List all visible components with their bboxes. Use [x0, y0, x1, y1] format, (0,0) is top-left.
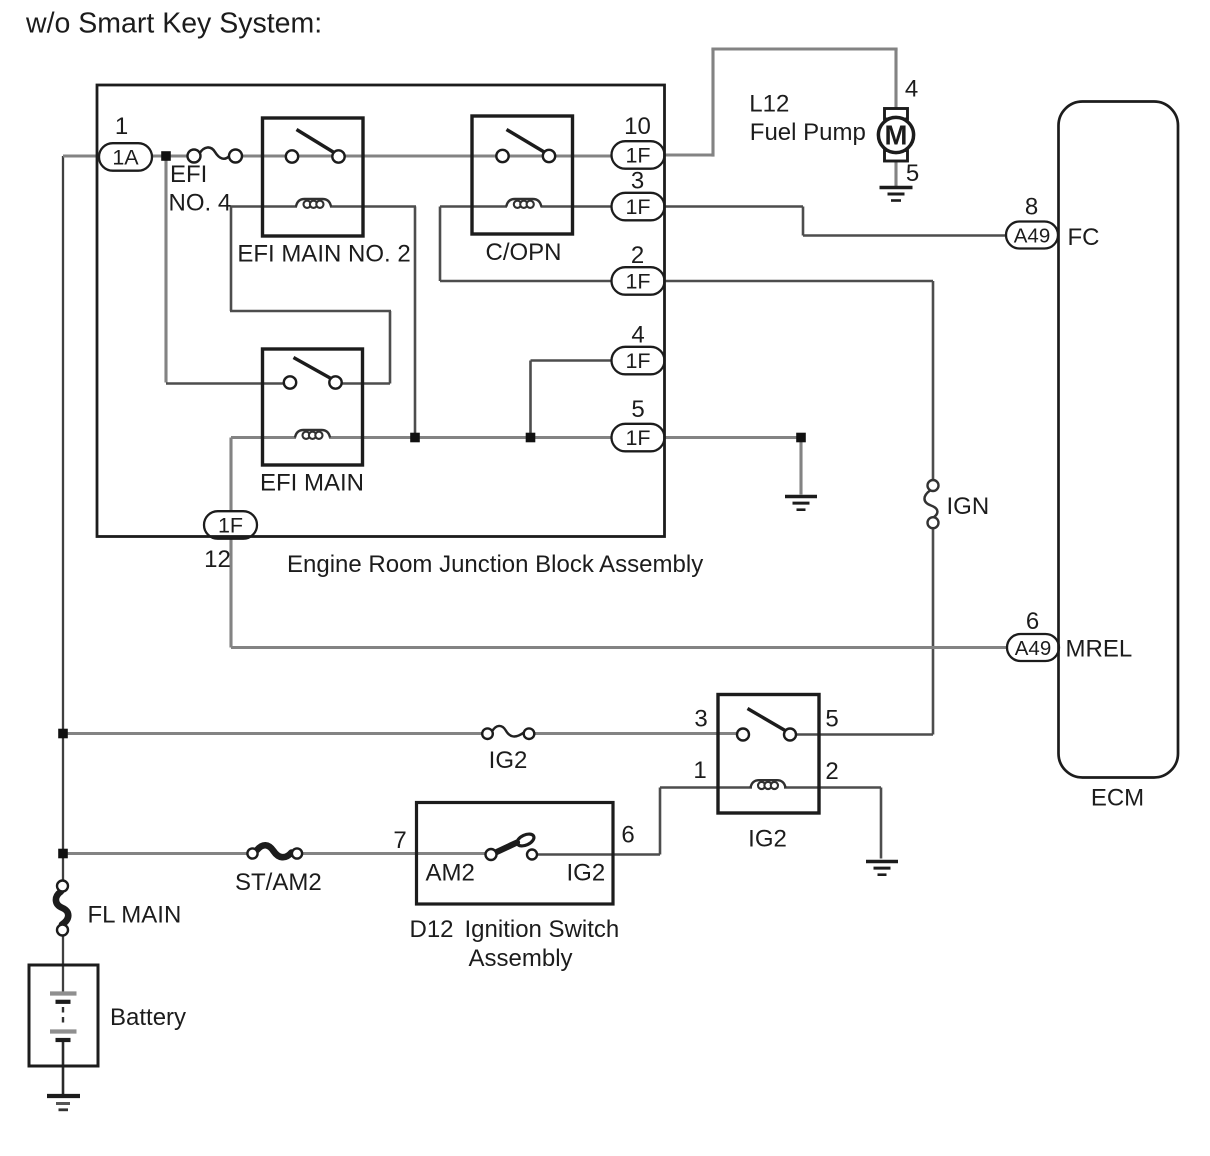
- fusible link ST/AM2: [247, 845, 302, 858]
- svg-text:6: 6: [1026, 608, 1039, 635]
- svg-text:ST/AM2: ST/AM2: [235, 869, 322, 896]
- svg-text:2: 2: [825, 758, 838, 785]
- svg-text:M: M: [885, 120, 908, 151]
- label fusible link FL MAIN: [88, 902, 182, 929]
- svg-text:4: 4: [631, 322, 644, 349]
- relay box C/OPN: [472, 116, 573, 234]
- svg-text:1: 1: [693, 757, 706, 784]
- svg-text:Assembly: Assembly: [469, 945, 573, 972]
- ground pin 5: [785, 497, 817, 510]
- label fusible link ST/AM2: [235, 869, 322, 896]
- svg-text:IG2: IG2: [489, 747, 528, 774]
- battery plate short negative: [56, 1000, 71, 1004]
- wire ignition switch to IG2 relay coil: [537, 788, 752, 855]
- label D12 Ignition Switch Assembly: [410, 916, 620, 972]
- coil C/OPN: [506, 199, 541, 208]
- fusible link FL MAIN: [56, 881, 68, 936]
- label MREL: [1066, 636, 1133, 663]
- svg-text:3: 3: [631, 168, 644, 195]
- wire main top line 1A to fuse: [151, 154, 189, 157]
- svg-text:6: 6: [621, 822, 634, 849]
- junction dot IG2 fuse tap: [58, 729, 68, 739]
- wire battery main feed vertical: [62, 156, 64, 994]
- coil IG2 relay: [751, 780, 786, 789]
- svg-text:Engine Room Junction Block Ass: Engine Room Junction Block Assembly: [287, 551, 703, 578]
- wire pin 10 to fuel pump: [664, 49, 898, 157]
- label L12 Fuel Pump: [749, 91, 866, 147]
- svg-text:Ignition Switch: Ignition Switch: [465, 916, 620, 943]
- label Battery: [110, 1004, 186, 1031]
- svg-text:FC: FC: [1068, 224, 1100, 251]
- connector A49 pin 8 FC: [1006, 222, 1058, 249]
- relay box EFI MAIN NO. 2: [263, 118, 364, 236]
- svg-text:10: 10: [624, 113, 651, 140]
- junction dot NO. 2 coil / EFI MAIN coil: [410, 433, 420, 443]
- junction dot pin 5 / ground: [796, 433, 806, 443]
- svg-text:MREL: MREL: [1066, 636, 1133, 663]
- label pin 10: [624, 113, 651, 140]
- svg-text:A49: A49: [1015, 637, 1051, 660]
- label pin 4: [631, 322, 644, 349]
- wire ST/AM2 feed: [63, 852, 486, 855]
- junction dot ST/AM2 tap: [58, 849, 68, 859]
- svg-text:8: 8: [1025, 194, 1038, 221]
- wire pin 12 riser: [229, 438, 232, 513]
- fuel pump motor M: [878, 109, 913, 162]
- relay box EFI MAIN: [263, 349, 363, 465]
- label pin 8: [1025, 194, 1038, 221]
- contact blade EFI MAIN NO. 2: [286, 130, 345, 163]
- connector A49 pin 6 MREL: [1007, 634, 1059, 661]
- ECM box: [1059, 102, 1179, 778]
- wire pin 2 to IGN fuse: [664, 281, 933, 481]
- svg-text:1: 1: [115, 113, 128, 140]
- connector 1F pin 2: [612, 267, 665, 295]
- label FC: [1068, 224, 1100, 251]
- svg-text:EFI: EFI: [170, 161, 207, 188]
- svg-text:5: 5: [825, 706, 838, 733]
- label junction block: [287, 551, 703, 578]
- svg-text:12: 12: [204, 546, 231, 573]
- svg-text:Battery: Battery: [110, 1004, 186, 1031]
- svg-text:7: 7: [393, 827, 406, 854]
- label ECM: [1091, 785, 1144, 812]
- svg-text:NO. 4: NO. 4: [169, 190, 232, 217]
- coil EFI MAIN NO. 2: [296, 199, 331, 208]
- label fuse EFI NO. 4: [169, 161, 232, 217]
- wire C/OPN coil line: [440, 205, 612, 208]
- svg-text:EFI MAIN: EFI MAIN: [260, 470, 364, 497]
- label pin 12: [204, 546, 231, 573]
- contact blade IG2 relay: [737, 709, 796, 741]
- battery plate long positive: [50, 991, 77, 995]
- connector 1F pin 10: [612, 141, 665, 169]
- svg-text:EFI MAIN NO. 2: EFI MAIN NO. 2: [237, 241, 410, 268]
- fuse EFI NO. 4: [188, 147, 243, 162]
- connector 1F pin 4: [612, 347, 665, 375]
- svg-text:ECM: ECM: [1091, 785, 1144, 812]
- svg-text:IG2: IG2: [567, 860, 606, 887]
- junction dot EFI NO. 4 tap: [161, 151, 171, 161]
- label pin 1: [115, 113, 128, 140]
- svg-text:L12: L12: [749, 91, 789, 118]
- svg-text:w/o Smart Key System:: w/o Smart Key System:: [25, 8, 322, 40]
- label fuse IGN: [947, 493, 990, 520]
- connector 1A pin 1: [99, 143, 152, 171]
- coil EFI MAIN: [295, 430, 330, 439]
- svg-text:FL MAIN: FL MAIN: [88, 902, 182, 929]
- ignition switch box D12: [417, 803, 614, 905]
- wire EFI NO. 4 drop: [164, 156, 167, 383]
- svg-text:5: 5: [631, 396, 644, 423]
- label AM2: [426, 860, 475, 887]
- ignition switch lever: [486, 832, 538, 860]
- wire IG2 relay coil to ground: [784, 788, 881, 859]
- svg-text:1F: 1F: [625, 349, 650, 373]
- label switch IG2: [567, 860, 606, 887]
- wire battery negative to ground: [62, 1041, 65, 1094]
- junction block Engine Room Junction Block Assembly: [97, 85, 665, 537]
- ground IG2 relay coil: [866, 862, 898, 875]
- ground battery: [47, 1096, 80, 1110]
- label pin 2: [631, 242, 644, 269]
- svg-text:4: 4: [905, 76, 918, 103]
- label pin 5: [631, 396, 644, 423]
- wire EFI MAIN NO. 2 coil line: [230, 207, 416, 438]
- svg-text:1F: 1F: [625, 270, 650, 294]
- fuse IGN: [924, 480, 938, 528]
- battery box: [29, 965, 98, 1066]
- label pin 3: [631, 168, 644, 195]
- svg-text:1F: 1F: [218, 514, 243, 538]
- battery plate short negative 2: [56, 1038, 71, 1042]
- wire pin 4 branch: [531, 361, 613, 438]
- svg-text:1F: 1F: [625, 195, 650, 219]
- wire EFI MAIN right contact to EFI MAIN NO. 2 coil: [230, 207, 391, 384]
- svg-text:3: 3: [694, 706, 707, 733]
- label IG2 relay pin 5: [825, 706, 838, 733]
- label fuse IG2: [489, 747, 528, 774]
- fuse IG2: [482, 726, 534, 739]
- svg-text:5: 5: [906, 160, 919, 187]
- svg-text:AM2: AM2: [426, 860, 475, 887]
- svg-text:1F: 1F: [625, 426, 650, 450]
- svg-text:C/OPN: C/OPN: [485, 239, 561, 266]
- wire EFI MAIN coil line: [231, 436, 612, 439]
- label motor pin 4: [905, 76, 918, 103]
- svg-text:IGN: IGN: [947, 493, 990, 520]
- label IG2 relay pin 2: [825, 758, 838, 785]
- wire 1A feed horizontal: [63, 154, 100, 157]
- label pin 6: [1026, 608, 1039, 635]
- battery cell dashed link: [62, 1007, 64, 1027]
- ground fuel pump: [880, 188, 913, 201]
- wire IGN fuse to IG2 relay pin 5: [796, 528, 933, 735]
- label relay EFI MAIN NO. 2: [237, 241, 410, 268]
- wire fuel pump to ground: [894, 161, 897, 187]
- wire pin 5 to ground: [664, 438, 801, 495]
- contact blade C/OPN: [496, 130, 555, 163]
- label relay IG2: [748, 826, 787, 853]
- svg-text:Fuel Pump: Fuel Pump: [750, 119, 866, 146]
- connector 1F pin 12: [204, 511, 257, 539]
- battery plate long positive 2: [50, 1029, 77, 1033]
- connector 1F pin 3: [612, 193, 665, 221]
- relay box IG2: [718, 695, 819, 814]
- label IG2 relay pin 3: [694, 706, 707, 733]
- svg-text:IG2: IG2: [748, 826, 787, 853]
- svg-text:1A: 1A: [112, 146, 139, 170]
- label relay C/OPN: [485, 239, 561, 266]
- svg-text:1F: 1F: [625, 144, 650, 168]
- title: [25, 8, 322, 40]
- junction dot pin 4 / coil line: [526, 433, 536, 443]
- svg-text:D12: D12: [410, 916, 454, 943]
- label switch pin 7: [393, 827, 406, 854]
- wire to EFI MAIN left contact: [166, 382, 285, 385]
- wire pin 3 to FC: [664, 207, 1007, 236]
- wire C/OPN coil to pin 2: [440, 207, 612, 282]
- svg-text:A49: A49: [1014, 224, 1050, 247]
- svg-text:2: 2: [631, 242, 644, 269]
- connector 1F pin 5: [612, 424, 665, 452]
- wire IG2 fuse feed: [63, 732, 749, 735]
- label switch pin 6: [621, 822, 634, 849]
- label IG2 relay pin 1: [693, 757, 706, 784]
- label relay EFI MAIN: [260, 470, 364, 497]
- wire pin 12 to MREL: [231, 539, 1008, 648]
- label motor pin 5: [906, 160, 919, 187]
- contact blade EFI MAIN: [284, 358, 342, 389]
- wire main top line fuse to pin 10: [242, 154, 613, 157]
